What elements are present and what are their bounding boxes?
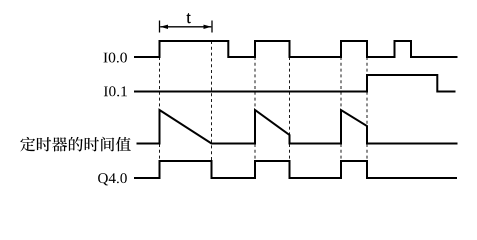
dashed guide line at rising edge 3 [340,57,342,178]
dashed guide line at reset instant (I0.1 rise) [366,57,368,178]
waveform I0.0 [134,41,458,57]
label I0.1 [104,86,127,96]
arrowhead left [160,25,168,29]
dashed guide line at rising edge 1 [159,57,161,178]
dashed guide line at falling edge 2 [289,57,291,178]
label Q4.0 [98,173,127,185]
dashed guide line at rising edge 2 [254,57,256,178]
waveform I0.1 [134,75,456,92]
waveform timer time value (ramps) [137,110,458,144]
dimension arrow shaft [160,26,211,28]
waveform Q4.0 [134,161,457,178]
arrowhead right [204,25,212,29]
label t [187,13,191,23]
dimension tick right [211,21,213,33]
label I0.0 [104,53,127,63]
dashed guide line at end of interval t [211,41,213,178]
label 定时器的时间值 [20,137,131,152]
dimension tick left [159,21,161,33]
